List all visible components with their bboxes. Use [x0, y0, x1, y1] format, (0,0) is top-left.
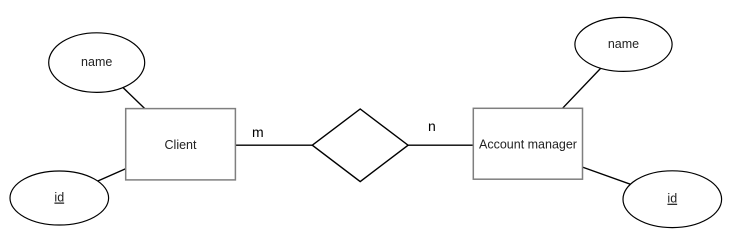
- wire: id(left) to Client: [59, 169, 126, 198]
- svg-text:id: id: [54, 191, 64, 205]
- svg-text:id: id: [667, 192, 677, 206]
- wire: Client to relationship diamond: [235, 144, 312, 146]
- wire: relationship diamond to Account manager: [408, 144, 473, 146]
- attribute ellipse name (right): [575, 17, 672, 71]
- svg-text:name: name: [81, 55, 112, 69]
- svg-text:Account manager: Account manager: [479, 137, 577, 151]
- entity Client: [126, 109, 236, 180]
- svg-text:Client: Client: [165, 138, 197, 152]
- wire: Account manager to id(right): [583, 167, 673, 199]
- svg-text:n: n: [428, 118, 436, 134]
- svg-text:m: m: [252, 124, 264, 140]
- wire: name(left) to Client: [97, 62, 145, 108]
- attribute ellipse id (right, key): [623, 171, 722, 228]
- attribute ellipse name (left): [49, 33, 145, 93]
- svg-text:name: name: [608, 37, 639, 51]
- attribute ellipse id (left, key): [10, 171, 109, 225]
- relationship diamond: [312, 109, 408, 182]
- wire: Account manager to name(right): [563, 44, 624, 108]
- entity Account manager: [473, 108, 582, 179]
